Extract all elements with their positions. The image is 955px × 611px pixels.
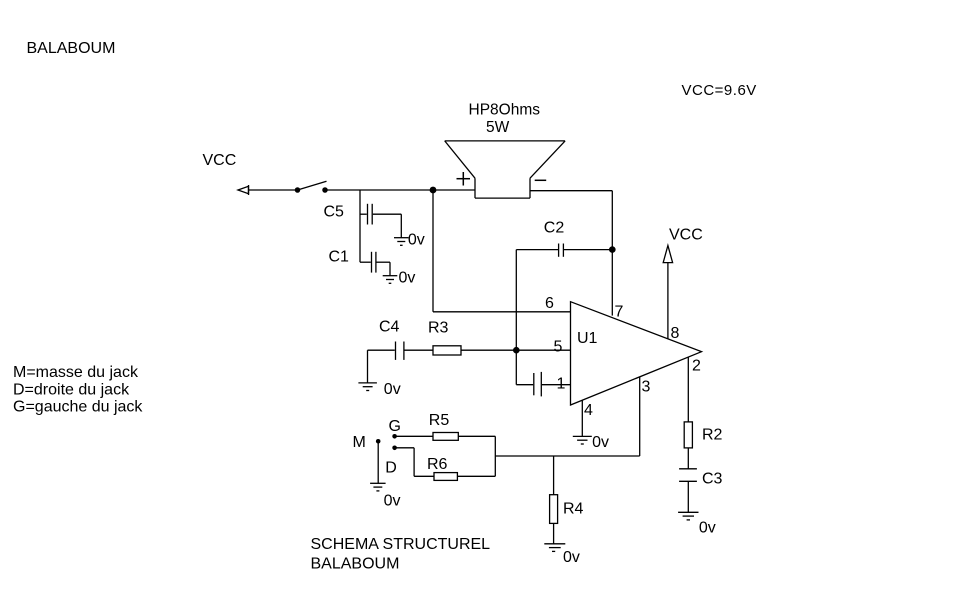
- svg-text:VCC: VCC: [669, 227, 703, 244]
- wire R5/R6 tie vertical: [494, 436, 496, 476]
- svg-text:4: 4: [584, 402, 593, 419]
- label C1: [329, 249, 350, 266]
- svg-text:C3: C3: [702, 471, 723, 488]
- svg-text:SCHEMA STRUCTUREL: SCHEMA STRUCTUREL: [311, 536, 491, 553]
- svg-text:8: 8: [671, 325, 680, 342]
- resistor R5: [433, 433, 495, 441]
- op-amp U1: [571, 302, 702, 405]
- ground (C1): [383, 276, 398, 284]
- VCC arrow (up) at pin 8: [663, 246, 672, 263]
- switch S1: [295, 181, 327, 192]
- label C4: [379, 319, 400, 336]
- label R5: [429, 412, 450, 429]
- node junction C2 / pin7: [609, 246, 616, 253]
- svg-text:C5: C5: [324, 204, 345, 221]
- pin number 2: [692, 357, 701, 374]
- label G (jack left): [389, 418, 401, 435]
- capacitor on pin 1: [516, 350, 570, 396]
- svg-text:R5: R5: [429, 412, 450, 429]
- wire pin6 branch (junction down and right to op-amp): [433, 190, 571, 312]
- svg-text:VCC: VCC: [203, 152, 237, 169]
- svg-text:0v: 0v: [699, 520, 716, 537]
- svg-text:R4: R4: [563, 501, 584, 518]
- label C5: [324, 204, 345, 221]
- label R4: [563, 501, 584, 518]
- VCC net label (left): [203, 152, 237, 169]
- wire VCC arrow to switch: [249, 189, 298, 191]
- speaker value label HP8Ohms 5W: [469, 102, 541, 136]
- svg-text:G=gauche du jack: G=gauche du jack: [13, 399, 143, 416]
- pin number 7: [615, 303, 624, 320]
- node junction pin5 net: [513, 347, 520, 354]
- pin number 6: [545, 295, 554, 312]
- svg-text:U1: U1: [577, 330, 598, 347]
- wire bus down to R4: [553, 456, 555, 495]
- svg-text:7: 7: [615, 303, 624, 320]
- node G: [392, 434, 397, 439]
- capacitor C2: [516, 244, 612, 257]
- speaker + terminal mark: [457, 172, 471, 186]
- svg-text:6: 6: [545, 295, 554, 312]
- ground (C4 input): [358, 383, 377, 391]
- wire ground riser to C4: [368, 350, 395, 383]
- speaker HP 8 ohms: [445, 141, 565, 198]
- wire pin7 from C2 junction down into op-amp: [611, 250, 613, 316]
- svg-text:M: M: [353, 434, 366, 451]
- label U1: [577, 330, 598, 347]
- resistor R2: [684, 422, 692, 469]
- capacitor C5: [360, 204, 401, 238]
- VCC net label (pin 8): [669, 227, 703, 244]
- net label 0v (M ground): [384, 492, 401, 509]
- node M: [376, 439, 381, 444]
- speaker - terminal mark: [535, 179, 547, 181]
- svg-text:HP8Ohms: HP8Ohms: [469, 102, 541, 119]
- ground (R4): [544, 544, 565, 552]
- wire VCC arrow to pin8: [667, 263, 669, 339]
- capacitor C1: [360, 252, 390, 276]
- net label 0v (C3 ground): [699, 520, 716, 537]
- label C2: [544, 220, 565, 237]
- wire speaker - to C2 junction: [530, 191, 612, 250]
- wire C2 left to pin5 net: [515, 250, 517, 351]
- svg-text:0v: 0v: [408, 231, 425, 248]
- VCC arrow (left, pointing left): [238, 185, 249, 195]
- wire pin4 to ground: [581, 401, 583, 437]
- svg-text:R6: R6: [427, 456, 448, 473]
- ground (C3): [678, 512, 698, 520]
- net label 0v (R4 ground): [563, 549, 580, 566]
- svg-text:3: 3: [642, 379, 651, 396]
- pin number 4: [584, 402, 593, 419]
- net label 0v (pin4 ground): [592, 434, 609, 451]
- wire pin2 down to R2: [687, 358, 689, 422]
- label C3: [702, 471, 723, 488]
- ground (C5): [394, 238, 409, 246]
- wire pin3 down to bus: [639, 377, 641, 456]
- svg-text:R2: R2: [702, 426, 723, 443]
- svg-text:0v: 0v: [563, 549, 580, 566]
- svg-text:C1: C1: [329, 249, 350, 266]
- ground (pin4): [573, 436, 592, 444]
- svg-text:5: 5: [554, 339, 563, 356]
- title text BALABOUM: [27, 40, 116, 57]
- label R3: [428, 319, 449, 336]
- resistor R6: [434, 473, 495, 481]
- net label 0v (C5 ground): [408, 231, 425, 248]
- wire G to R5: [395, 435, 433, 437]
- net label 0v (C4 ground): [384, 381, 401, 398]
- svg-text:0v: 0v: [384, 492, 401, 509]
- resistor R4: [550, 495, 558, 544]
- svg-text:G: G: [389, 418, 401, 435]
- svg-text:0v: 0v: [399, 270, 416, 287]
- node D: [392, 446, 397, 451]
- pin number 1: [557, 376, 566, 393]
- label R6: [427, 456, 448, 473]
- svg-text:2: 2: [692, 357, 701, 374]
- caption text SCHEMA STRUCTUREL BALABOUM: [311, 536, 491, 572]
- label D (jack right): [385, 460, 397, 477]
- pin number 8: [671, 325, 680, 342]
- svg-text:D: D: [385, 460, 397, 477]
- legend text jack pinout: [13, 364, 143, 416]
- resistor R3: [433, 346, 571, 355]
- svg-text:BALABOUM: BALABOUM: [311, 556, 400, 573]
- pin number 5: [554, 339, 563, 356]
- svg-text:D=droite du jack: D=droite du jack: [13, 381, 130, 398]
- ground (M): [370, 483, 386, 491]
- svg-text:BALABOUM: BALABOUM: [27, 40, 116, 57]
- node junction VCC rail / pin6 branch: [430, 187, 437, 194]
- label R2: [702, 426, 723, 443]
- svg-text:5W: 5W: [486, 119, 510, 136]
- capacitor C4: [396, 342, 434, 360]
- wire M to ground: [377, 441, 379, 483]
- svg-text:R3: R3: [428, 319, 449, 336]
- wire stub down for C5/C1: [359, 190, 361, 262]
- svg-text:C4: C4: [379, 319, 400, 336]
- capacitor C3: [679, 469, 697, 513]
- svg-text:0v: 0v: [592, 434, 609, 451]
- svg-text:VCC=9.6V: VCC=9.6V: [682, 82, 757, 99]
- label M (jack sleeve): [353, 434, 366, 451]
- wire D to R6: [395, 448, 434, 477]
- svg-text:M=masse du jack: M=masse du jack: [13, 364, 139, 381]
- net label 0v (C1 ground): [399, 270, 416, 287]
- supply value text VCC=9.6V: [682, 82, 757, 99]
- svg-text:1: 1: [557, 376, 566, 393]
- svg-text:0v: 0v: [384, 381, 401, 398]
- wire switch to speaker (+) rail: [325, 189, 475, 191]
- wire input bus to pin3: [495, 455, 639, 457]
- svg-text:C2: C2: [544, 220, 565, 237]
- pin number 3: [642, 379, 651, 396]
